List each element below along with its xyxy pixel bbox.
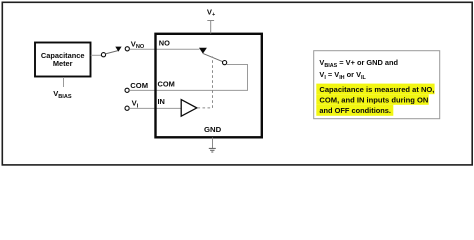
wire VNO to NO pin: [130, 48, 200, 50]
node COM contact: [125, 88, 129, 92]
capacitance meter box: [35, 43, 91, 77]
switch S1 arrowhead: [115, 47, 121, 52]
svg-text:COM, and IN inputs during ON: COM, and IN inputs during ON: [319, 95, 428, 104]
switch S1 lever: [105, 51, 118, 54]
switch S2 arrowhead: [199, 48, 207, 54]
svg-text:VBIAS: VBIAS: [53, 89, 72, 100]
node VBIAS stub: [63, 77, 65, 87]
wire VI to IN pin: [129, 107, 181, 109]
node VI contact: [125, 106, 129, 110]
note box: [314, 51, 440, 119]
switch S2 lever: [203, 53, 223, 61]
buffer U2: [181, 100, 197, 117]
wire dashed buffer to switch control: [198, 57, 213, 108]
wire switch to COM loop: [227, 65, 248, 91]
svg-text:and OFF conditions.: and OFF conditions.: [319, 106, 391, 115]
node VNO contact: [125, 47, 129, 51]
svg-text:Capacitance is measured at NO,: Capacitance is measured at NO,: [319, 85, 434, 94]
svg-text:COM: COM: [130, 81, 148, 90]
svg-text:VBIAS = V+ or GND and: VBIAS = V+ or GND and: [319, 58, 398, 69]
svg-text:COM: COM: [158, 80, 175, 89]
note highlight band 1: [316, 84, 434, 95]
power V+ terminal tick: [207, 20, 214, 22]
frame border: [2, 2, 472, 165]
svg-text:GND: GND: [204, 125, 222, 134]
wire meter to switch: [91, 54, 102, 56]
svg-text:VNO: VNO: [131, 39, 145, 50]
wire box to ground: [212, 138, 214, 149]
IC U1 box: [156, 34, 262, 138]
wire COM pin: [129, 89, 248, 91]
wire V+ to box: [210, 21, 212, 34]
switch S2 throw contact: [223, 61, 227, 65]
note highlight band 3: [316, 105, 393, 116]
svg-text:Meter: Meter: [53, 59, 73, 68]
svg-text:NO: NO: [159, 38, 170, 47]
svg-text:VI = VIH or VIL: VI = VIH or VIL: [319, 70, 366, 81]
svg-text:IN: IN: [158, 97, 165, 106]
note highlight band 2: [316, 94, 428, 105]
ground: [209, 147, 216, 149]
svg-text:V+: V+: [207, 7, 216, 18]
switch S1 pole contact: [101, 53, 105, 57]
svg-text:VI: VI: [132, 99, 139, 110]
